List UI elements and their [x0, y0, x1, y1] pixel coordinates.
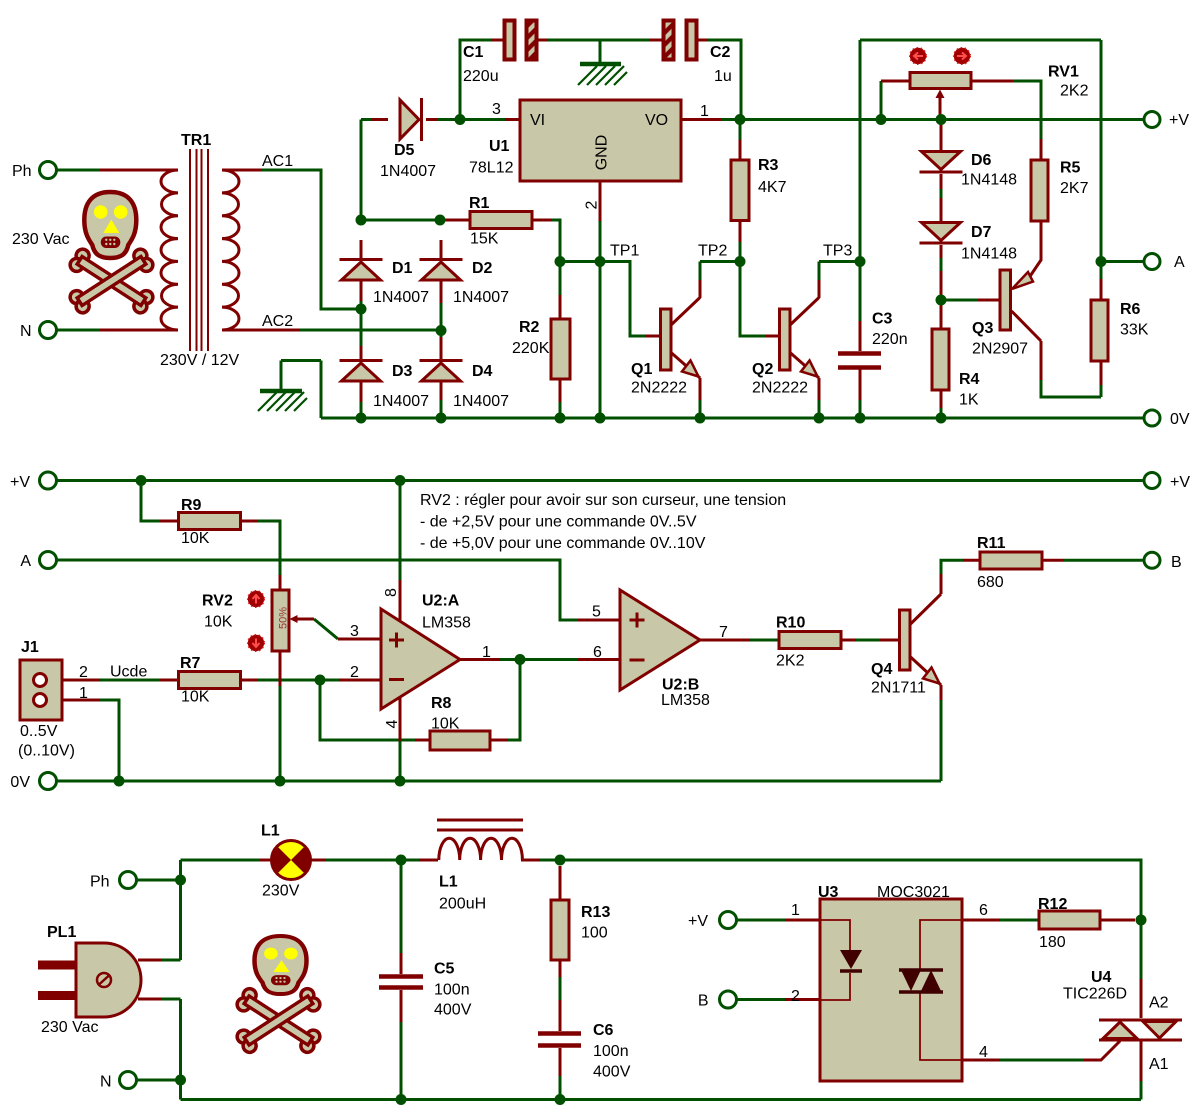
svg-text:D4: D4: [472, 363, 493, 380]
svg-text:180: 180: [1039, 934, 1066, 951]
svg-text:1N4007: 1N4007: [453, 393, 509, 410]
svg-text:230V: 230V: [262, 883, 300, 900]
svg-text:RV2: RV2: [202, 593, 233, 610]
svg-text:A1: A1: [1149, 1056, 1169, 1073]
svg-text:A: A: [1174, 254, 1185, 271]
svg-text:10K: 10K: [181, 689, 210, 706]
svg-text:R2: R2: [519, 319, 540, 336]
svg-text:R8: R8: [431, 695, 452, 712]
svg-text:2K7: 2K7: [1060, 180, 1089, 197]
svg-text:TP2: TP2: [698, 243, 727, 260]
svg-text:- de +5,0V pour une commande 0: - de +5,0V pour une commande 0V..10V: [420, 535, 706, 552]
svg-text:D2: D2: [472, 260, 493, 277]
svg-text:220K: 220K: [512, 340, 550, 357]
svg-text:78L12: 78L12: [469, 160, 514, 177]
svg-text:1N4148: 1N4148: [961, 246, 1017, 263]
svg-text:220n: 220n: [872, 331, 908, 348]
svg-text:400V: 400V: [434, 1002, 472, 1019]
svg-text:2: 2: [584, 200, 601, 209]
svg-text:8: 8: [383, 588, 400, 597]
svg-text:1: 1: [700, 103, 709, 120]
svg-text:Ph: Ph: [90, 874, 110, 891]
svg-text:6: 6: [979, 902, 988, 919]
svg-text:1N4007: 1N4007: [380, 163, 436, 180]
svg-text:1u: 1u: [714, 68, 732, 85]
svg-text:3: 3: [350, 623, 359, 640]
svg-text:VI: VI: [530, 112, 545, 129]
svg-text:N: N: [20, 323, 32, 340]
svg-text:R9: R9: [181, 497, 202, 514]
svg-text:10K: 10K: [204, 614, 233, 631]
svg-text:A2: A2: [1149, 995, 1169, 1012]
svg-text:RV2 : régler pour avoir sur so: RV2 : régler pour avoir sur son curseur,…: [420, 492, 786, 509]
svg-text:100: 100: [581, 925, 608, 942]
svg-text:15K: 15K: [470, 231, 499, 248]
svg-text:(0..10V): (0..10V): [18, 743, 75, 760]
svg-text:LM358: LM358: [661, 692, 710, 709]
svg-text:D1: D1: [392, 260, 413, 277]
svg-text:GND: GND: [594, 135, 611, 171]
svg-text:33K: 33K: [1120, 322, 1149, 339]
svg-text:2N2222: 2N2222: [752, 380, 808, 397]
svg-text:400V: 400V: [593, 1064, 631, 1081]
svg-text:N: N: [100, 1074, 112, 1091]
svg-text:U4: U4: [1091, 969, 1112, 986]
svg-text:RV1: RV1: [1048, 64, 1079, 81]
svg-text:680: 680: [977, 574, 1004, 591]
svg-text:1N4007: 1N4007: [373, 289, 429, 306]
svg-text:0V: 0V: [10, 774, 30, 791]
svg-text:1N4007: 1N4007: [373, 393, 429, 410]
svg-text:B: B: [698, 993, 709, 1010]
svg-text:R1: R1: [469, 195, 490, 212]
svg-text:R4: R4: [959, 371, 980, 388]
svg-text:100n: 100n: [593, 1043, 629, 1060]
svg-text:TR1: TR1: [181, 132, 211, 149]
svg-text:U1: U1: [489, 138, 510, 155]
svg-text:R11: R11: [977, 535, 1006, 552]
svg-text:2: 2: [79, 664, 88, 681]
svg-text:+V: +V: [10, 474, 30, 491]
svg-text:Ph: Ph: [12, 163, 32, 180]
svg-text:5: 5: [592, 604, 601, 621]
svg-text:50%: 50%: [278, 607, 290, 629]
svg-text:1: 1: [791, 902, 800, 919]
svg-text:4: 4: [979, 1044, 988, 1061]
svg-text:1N4148: 1N4148: [961, 172, 1017, 189]
svg-text:R5: R5: [1060, 160, 1081, 177]
svg-text:1: 1: [79, 685, 88, 702]
svg-text:4K7: 4K7: [758, 179, 787, 196]
svg-text:6: 6: [593, 644, 602, 661]
svg-text:1: 1: [482, 644, 491, 661]
svg-text:10K: 10K: [431, 716, 460, 733]
svg-text:2N2907: 2N2907: [972, 341, 1028, 358]
svg-text:0V: 0V: [1170, 411, 1190, 428]
svg-text:AC1: AC1: [262, 153, 293, 170]
svg-text:U2:A: U2:A: [422, 593, 460, 610]
svg-text:1N4007: 1N4007: [453, 289, 509, 306]
svg-text:3: 3: [492, 101, 501, 118]
svg-text:D6: D6: [971, 152, 992, 169]
svg-text:230V / 12V: 230V / 12V: [160, 352, 240, 369]
svg-text:2: 2: [350, 664, 359, 681]
svg-text:L1: L1: [261, 823, 280, 840]
svg-text:Ucde: Ucde: [110, 664, 147, 681]
svg-text:220u: 220u: [463, 68, 499, 85]
svg-text:0..5V: 0..5V: [20, 723, 58, 740]
svg-text:2N2222: 2N2222: [631, 380, 687, 397]
svg-text:Q4: Q4: [871, 661, 892, 678]
svg-text:2K2: 2K2: [776, 653, 805, 670]
svg-text:LM358: LM358: [422, 615, 471, 632]
svg-text:TP3: TP3: [823, 243, 852, 260]
svg-text:C3: C3: [872, 311, 893, 328]
svg-text:Q3: Q3: [972, 320, 993, 337]
svg-text:J1: J1: [21, 639, 39, 656]
svg-text:7: 7: [719, 624, 728, 641]
svg-text:R6: R6: [1120, 301, 1141, 318]
svg-text:PL1: PL1: [47, 924, 76, 941]
svg-text:R3: R3: [758, 157, 779, 174]
svg-text:2N1711: 2N1711: [871, 680, 926, 697]
svg-text:Q2: Q2: [752, 361, 773, 378]
svg-text:C6: C6: [593, 1022, 614, 1039]
svg-text:200uH: 200uH: [439, 896, 486, 913]
svg-text:4: 4: [384, 719, 401, 728]
svg-text:+V: +V: [1170, 474, 1190, 491]
svg-text:TP1: TP1: [610, 243, 639, 260]
svg-text:R10: R10: [776, 615, 805, 632]
svg-text:- de +2,5V pour une commande 0: - de +2,5V pour une commande 0V..5V: [420, 514, 697, 531]
svg-text:+V: +V: [1169, 112, 1189, 129]
svg-text:D5: D5: [394, 142, 415, 159]
svg-text:TIC226D: TIC226D: [1063, 986, 1127, 1003]
svg-text:100n: 100n: [434, 982, 470, 999]
svg-text:230 Vac: 230 Vac: [41, 1019, 99, 1036]
svg-text:10K: 10K: [181, 530, 210, 547]
svg-text:Q1: Q1: [631, 361, 652, 378]
svg-text:C2: C2: [710, 44, 731, 61]
svg-text:2K2: 2K2: [1060, 83, 1089, 100]
svg-text:230 Vac: 230 Vac: [12, 231, 70, 248]
svg-text:L1: L1: [439, 874, 458, 891]
svg-text:AC2: AC2: [262, 313, 293, 330]
svg-text:B: B: [1171, 554, 1182, 571]
svg-text:C5: C5: [434, 961, 455, 978]
svg-text:+V: +V: [688, 913, 708, 930]
svg-text:U3: U3: [818, 884, 839, 901]
svg-text:C1: C1: [463, 44, 484, 61]
svg-text:1K: 1K: [959, 392, 979, 409]
svg-text:2: 2: [791, 988, 800, 1005]
svg-text:MOC3021: MOC3021: [877, 884, 950, 901]
svg-text:D3: D3: [392, 363, 413, 380]
svg-text:D7: D7: [971, 224, 992, 241]
svg-text:R13: R13: [581, 904, 610, 921]
svg-text:U2:B: U2:B: [662, 677, 699, 694]
svg-text:VO: VO: [645, 112, 668, 129]
svg-text:A: A: [20, 553, 31, 570]
svg-text:R7: R7: [180, 655, 201, 672]
svg-text:R12: R12: [1038, 896, 1067, 913]
